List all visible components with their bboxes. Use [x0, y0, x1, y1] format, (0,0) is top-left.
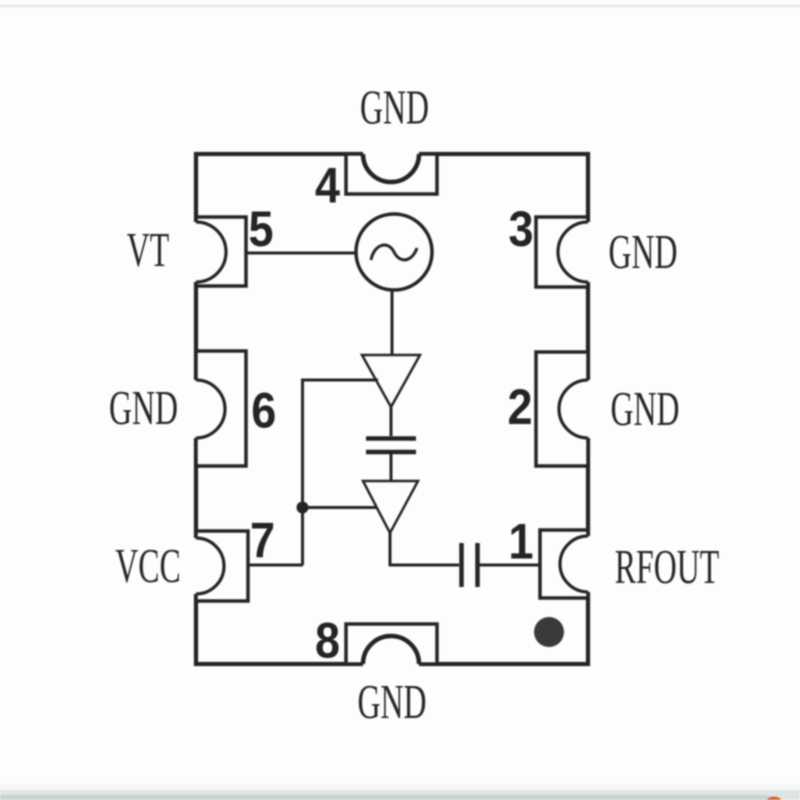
- svg-text:GND: GND: [109, 380, 178, 435]
- svg-text:8: 8: [315, 614, 340, 670]
- svg-text:VCC: VCC: [115, 538, 180, 593]
- svg-text:4: 4: [315, 159, 341, 215]
- svg-text:RFOUT: RFOUT: [615, 539, 719, 594]
- svg-text:3: 3: [508, 202, 533, 258]
- svg-text:1: 1: [508, 515, 533, 571]
- svg-text:6: 6: [251, 384, 276, 440]
- svg-text:GND: GND: [360, 80, 429, 135]
- svg-text:GND: GND: [609, 224, 678, 279]
- svg-text:VT: VT: [127, 222, 169, 277]
- svg-text:GND: GND: [611, 381, 680, 436]
- svg-text:GND: GND: [358, 674, 427, 729]
- svg-text:7: 7: [250, 514, 275, 570]
- svg-text:5: 5: [248, 202, 273, 258]
- svg-text:2: 2: [507, 380, 532, 436]
